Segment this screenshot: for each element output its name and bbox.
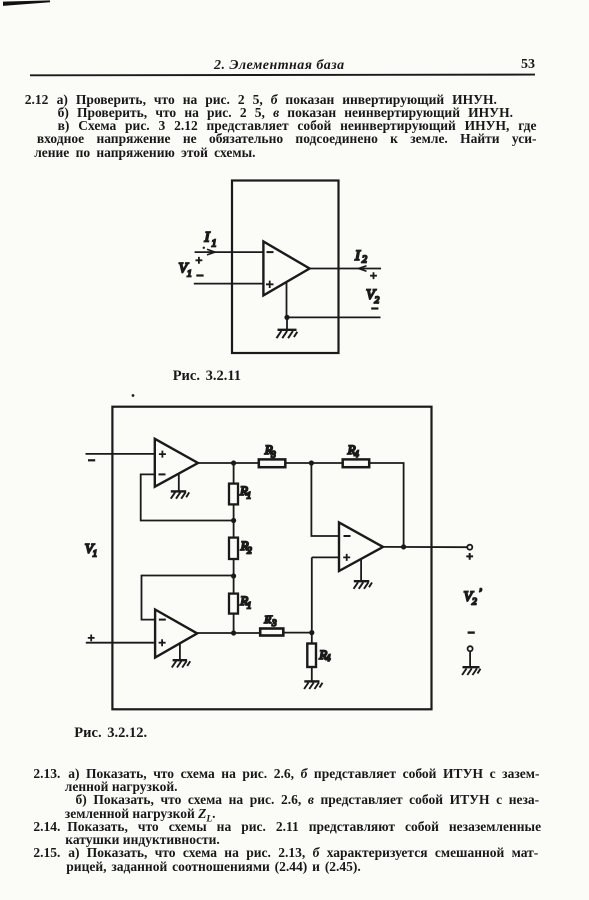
svg-text:1: 1 xyxy=(212,239,217,250)
A1 minus mark xyxy=(159,473,166,475)
minus mark output xyxy=(468,631,475,633)
paragraph 2.12 xyxy=(25,93,49,106)
wire input bottom xyxy=(194,283,264,285)
resistor R3bar xyxy=(260,629,283,636)
svg-text:3: 3 xyxy=(270,449,276,459)
wire output xyxy=(310,268,381,270)
lower terminal circle xyxy=(468,646,473,651)
ground under R4 xyxy=(304,667,322,689)
op-amp A2 xyxy=(155,610,197,658)
paragraph 2.14 xyxy=(33,820,60,833)
wire node6 down to U3 minus xyxy=(311,463,339,536)
wire input 2 xyxy=(86,642,155,644)
U3 minus mark xyxy=(344,535,351,537)
arrow I2 xyxy=(359,266,367,272)
A2 plus mark xyxy=(159,639,166,646)
wire bottom output xyxy=(287,316,381,318)
header chapter title xyxy=(214,59,345,72)
paragraph 2.13 xyxy=(33,767,60,780)
resistor R4 lower xyxy=(307,644,316,668)
plus mark input 2 xyxy=(88,635,95,642)
caption fig 3.2.11 xyxy=(173,369,241,383)
wire stem from U1 to ground node xyxy=(286,282,288,318)
wire node5 up to U3 plus xyxy=(311,557,313,632)
resistor R4 top xyxy=(343,459,370,467)
svg-text:I: I xyxy=(354,248,361,264)
node 5 xyxy=(309,630,314,635)
enclosure box xyxy=(232,181,339,354)
wire R4 right and down xyxy=(369,463,403,547)
header page number xyxy=(521,58,535,71)
enclosure box xyxy=(112,407,431,710)
ground at lower terminal xyxy=(462,651,480,675)
svg-text:I: I xyxy=(204,230,211,246)
node 2 xyxy=(231,573,236,578)
U3 output wire xyxy=(383,546,467,548)
dot artifact above box xyxy=(132,394,135,397)
svg-text:1: 1 xyxy=(187,270,192,280)
A2 minus mark xyxy=(159,619,166,621)
ground G1 xyxy=(277,317,298,338)
svg-text:1: 1 xyxy=(247,600,252,610)
dot artifact near I1 xyxy=(203,247,205,249)
svg-text:2: 2 xyxy=(247,546,252,556)
minus mark right xyxy=(371,307,378,309)
plus mark left xyxy=(196,257,203,264)
node 7 xyxy=(401,544,406,549)
node 1 xyxy=(231,518,236,523)
vertical resistor chain wire xyxy=(233,463,235,633)
scan artifact wedge top-left xyxy=(3,0,50,6)
A1 feedback wire xyxy=(141,474,234,520)
svg-text:4: 4 xyxy=(354,449,359,459)
resistor R1 lower xyxy=(229,594,238,614)
svg-text:2: 2 xyxy=(362,255,367,266)
svg-text:’: ’ xyxy=(478,585,482,599)
A1 ground xyxy=(171,474,189,499)
plus mark right xyxy=(370,272,377,279)
op-amp A1 xyxy=(155,439,198,487)
wire U3 plus xyxy=(312,556,339,558)
U3 ground xyxy=(354,559,372,589)
op-amp U1 xyxy=(263,242,309,296)
wire input top xyxy=(195,251,264,253)
minus mark left xyxy=(196,274,203,276)
plus mark output xyxy=(466,553,473,560)
arrow I1 xyxy=(207,249,215,255)
paragraph 2.15 xyxy=(33,846,60,859)
header rule xyxy=(30,74,535,77)
U1 minus input mark xyxy=(267,251,274,253)
wire A2out to node5 xyxy=(283,632,312,634)
svg-text:2: 2 xyxy=(472,598,477,608)
A1 output wire xyxy=(198,462,259,464)
caption fig 3.2.12 xyxy=(74,726,147,740)
resistor R1 upper xyxy=(229,484,238,505)
resistor R3 top xyxy=(259,459,286,467)
A2 feedback wire xyxy=(142,576,234,620)
output terminal circle xyxy=(467,545,472,550)
wire node5 down xyxy=(311,633,313,644)
svg-text:2: 2 xyxy=(375,296,380,306)
U3 plus mark xyxy=(343,554,350,561)
resistor R2 xyxy=(229,538,238,559)
svg-text:R: R xyxy=(263,614,271,626)
svg-text:3: 3 xyxy=(271,618,277,628)
label R3bar macron xyxy=(267,615,273,617)
node 6 xyxy=(309,460,314,465)
op-amp U3 xyxy=(339,522,383,571)
node 3 xyxy=(231,630,236,635)
A2 output wire xyxy=(197,632,260,634)
node dot xyxy=(284,315,289,320)
node A1 out xyxy=(231,460,236,465)
svg-text:1: 1 xyxy=(93,549,98,559)
A1 plus mark xyxy=(159,451,166,458)
wire R3 to R4 xyxy=(285,462,342,464)
svg-text:4: 4 xyxy=(326,653,331,663)
U1 plus input mark xyxy=(266,281,274,288)
svg-text:1: 1 xyxy=(247,491,252,501)
minus mark input 1 xyxy=(88,459,95,461)
wire input 1 xyxy=(86,453,155,455)
A2 ground xyxy=(172,643,190,667)
